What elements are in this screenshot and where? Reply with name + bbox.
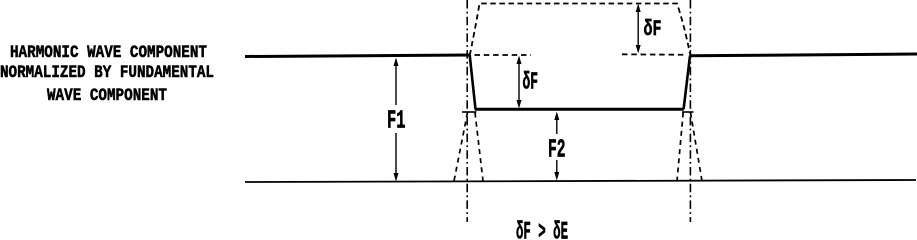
svg-text:F2: F2 [548, 135, 566, 164]
wire: solid waveform dip bottom [475, 108, 684, 111]
dashed overshoot outline [470, 4, 691, 56]
dashed reference-level segment right [622, 53, 687, 56]
wire: upper reference level, left segment [245, 55, 470, 57]
svg-text:δF > δE: δF > δE [516, 218, 568, 239]
dashed reference-level segment left [475, 54, 532, 56]
wire: solid waveform left falling slant [470, 55, 476, 109]
dashed flare left-outer [454, 113, 468, 182]
axis label: HARMONIC WAVE COMPONENT NORMALIZED BY FUNDAMENTAL WAVE COMPONENT [0, 43, 214, 106]
centerline right (dash-dot) [689, 0, 691, 222]
svg-text:NORMALIZED BY FUNDAMENTAL: NORMALIZED BY FUNDAMENTAL [0, 63, 214, 83]
dashed flare right-inner [677, 113, 683, 182]
dashed flare left-inner [475, 113, 483, 182]
wire: solid waveform right rising slant [684, 56, 690, 110]
centerline left (dash-dot) [466, 0, 468, 222]
svg-text:WAVE COMPONENT: WAVE COMPONENT [47, 86, 167, 106]
svg-text:δF: δF [644, 17, 662, 43]
svg-text:HARMONIC WAVE COMPONENT: HARMONIC WAVE COMPONENT [10, 43, 207, 63]
tick: dip-bottom level extension left [462, 111, 477, 113]
svg-text:F1: F1 [387, 106, 406, 135]
wire: upper reference level, right segment [690, 54, 917, 56]
dimension arrow deltaF (lower, inside dip) [517, 56, 539, 109]
svg-text:δF: δF [523, 70, 539, 97]
dashed flare right-outer [691, 113, 703, 182]
dimension arrow F2 [548, 112, 566, 181]
dimension arrow F1 [387, 58, 406, 182]
tick: dip-bottom level extension right [682, 111, 694, 113]
dimension arrow deltaF (upper, overshoot) [636, 4, 662, 54]
wire: lower reference line [245, 180, 916, 182]
